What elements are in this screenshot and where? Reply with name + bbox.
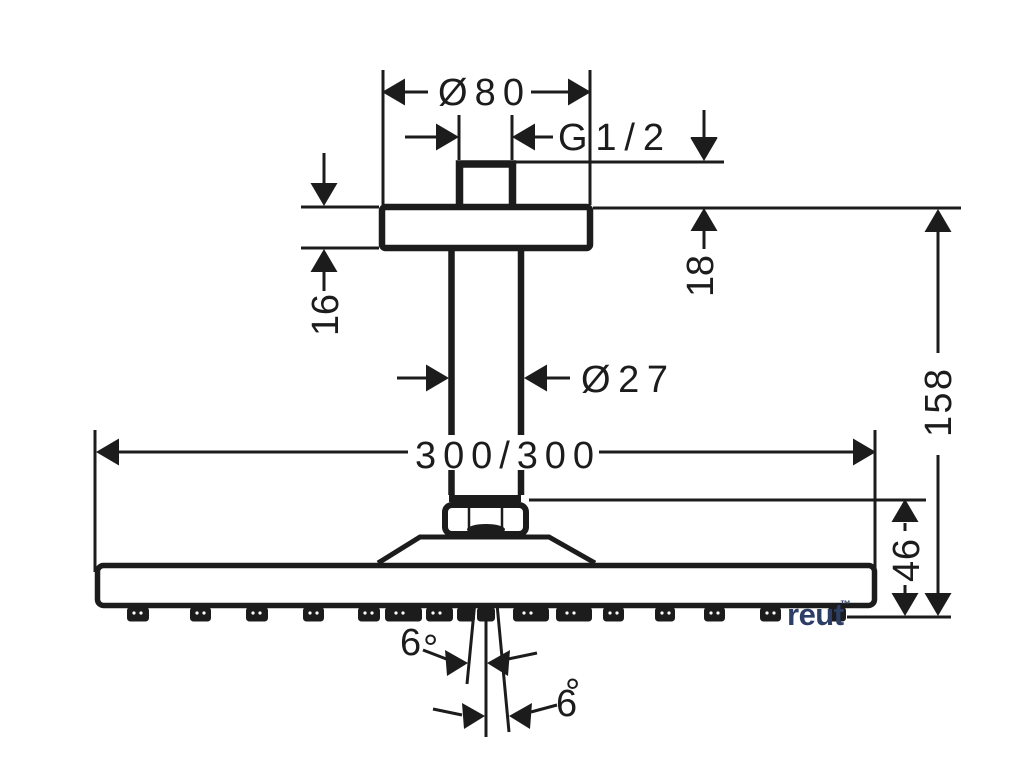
svg-text:G1/2: G1/2 — [558, 117, 664, 159]
svg-text:reut: reut — [787, 597, 844, 632]
svg-text:6: 6 — [400, 622, 421, 664]
svg-text:46: 46 — [886, 539, 928, 582]
svg-text:°: ° — [565, 672, 580, 714]
svg-text:18: 18 — [680, 255, 722, 297]
svg-text:300/300: 300/300 — [415, 435, 594, 477]
svg-text:™: ™ — [840, 599, 851, 611]
svg-text:Ø80: Ø80 — [438, 72, 524, 114]
svg-text:16: 16 — [305, 294, 347, 336]
svg-text:Ø27: Ø27 — [581, 359, 668, 401]
svg-text:158: 158 — [918, 369, 960, 437]
svg-text:°: ° — [423, 628, 438, 670]
